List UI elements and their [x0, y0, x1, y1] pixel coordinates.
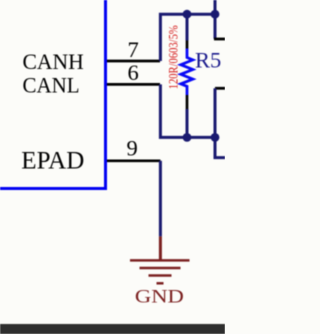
ground bar 3	[149, 274, 172, 277]
ground symbol stem	[159, 236, 162, 260]
svg-text:6: 6	[128, 60, 139, 85]
wire: middle pin down to bottom rail	[214, 88, 217, 137]
wire: resistor bottom to bottom rail	[186, 109, 189, 137]
resistor R5 bottom pin (black)	[186, 95, 189, 109]
wire: bottom rail node down and right to lower pin	[215, 137, 225, 157]
svg-text:9: 9	[127, 135, 138, 160]
junction node: top rail / resistor	[183, 10, 192, 19]
svg-text:CANL: CANL	[23, 72, 80, 97]
junction node: top rail / right branch	[211, 10, 220, 19]
wire: pin 9 down to ground	[159, 161, 162, 237]
svg-text:7: 7	[128, 37, 139, 62]
svg-text:CANH: CANH	[23, 49, 84, 74]
wire: pin 7 up to top rail	[160, 14, 215, 61]
ground bar 2	[140, 267, 181, 270]
svg-text:GND: GND	[135, 287, 184, 308]
right component middle pin stub (black)	[215, 87, 225, 90]
wire: pin 6 down to bottom rail	[160, 84, 215, 137]
resistor R5 top pin (black)	[186, 41, 189, 49]
wire: top rail node down to right component pin	[214, 14, 217, 39]
bottom dark bar (window edge)	[0, 324, 225, 334]
pin 6 (CANL)	[107, 83, 160, 86]
IC U1 body border	[0, 0, 106, 189]
junction node: bottom rail / right branch	[211, 133, 220, 142]
svg-text:R5: R5	[195, 48, 221, 73]
ground bar 4	[157, 282, 164, 285]
svg-text:120R/0603/5%: 120R/0603/5%	[165, 25, 180, 89]
pin 7 (CANH)	[107, 60, 160, 63]
resistor R5 zigzag body	[181, 49, 193, 96]
wire: top rail to resistor R5 top	[186, 14, 189, 40]
right component upper pin stub (black)	[214, 38, 225, 41]
wire: vertical entering from top edge to node at top rail	[214, 0, 217, 14]
pin 9 (EPAD)	[107, 159, 160, 162]
junction node: bottom rail / resistor	[183, 133, 192, 142]
ground bar 1	[130, 259, 190, 262]
svg-text:EPAD: EPAD	[21, 148, 84, 175]
